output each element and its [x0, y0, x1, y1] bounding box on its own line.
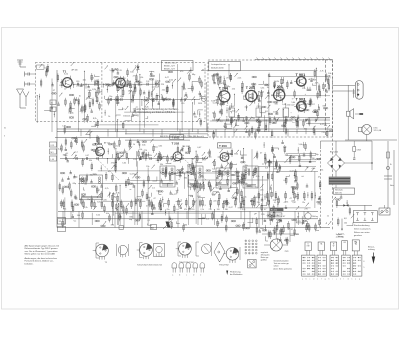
pinout T1 group	[93, 243, 129, 264]
cluster UKW under T2	[104, 94, 155, 130]
svg-text:1k: 1k	[217, 192, 219, 194]
svg-text:3,3k: 3,3k	[158, 145, 162, 147]
direction arrow note	[226, 270, 242, 276]
svg-text:Werte gelten nur bei reinem AM: Werte gelten nur bei reinem AM.	[25, 253, 56, 256]
svg-text:leitung: leitung	[338, 235, 343, 238]
svg-text:33k: 33k	[99, 92, 102, 94]
svg-text:1k: 1k	[212, 112, 214, 114]
svg-text:22n: 22n	[302, 202, 305, 204]
svg-text:5,6k: 5,6k	[232, 111, 236, 113]
svg-text:2,2k: 2,2k	[200, 209, 203, 211]
svg-text:5,6k: 5,6k	[243, 197, 247, 199]
cluster AM input	[58, 131, 101, 167]
svg-text:D201: D201	[198, 103, 202, 105]
svg-text:56k: 56k	[63, 208, 66, 210]
svg-text:33k: 33k	[324, 125, 327, 127]
wire	[335, 185, 337, 188]
tuning gang link (dashed)	[96, 158, 206, 180]
svg-text:8,2k: 8,2k	[275, 81, 279, 83]
svg-text:T901,T902: T901,T902	[219, 265, 230, 267]
diode D1	[137, 64, 140, 70]
svg-text:Reken von unten: Reken von unten	[354, 231, 371, 234]
diode demod circle	[198, 96, 206, 105]
transistor case outlines	[172, 263, 205, 277]
bus component	[119, 225, 157, 230]
svg-text:AF 116: AF 116	[183, 145, 189, 148]
label box A236	[270, 213, 282, 217]
svg-text:18p: 18p	[109, 96, 112, 98]
svg-text:33k: 33k	[274, 168, 277, 170]
pinout T901 group	[214, 242, 240, 267]
bandfilter can 1	[80, 175, 103, 200]
svg-text:AC 117: AC 117	[309, 103, 315, 106]
svg-text:a: a	[172, 274, 173, 276]
svg-text:6: 6	[364, 261, 365, 263]
transistor T901	[294, 73, 315, 88]
svg-text:330: 330	[64, 155, 67, 157]
wire bus +9V	[57, 128, 333, 130]
svg-text:220: 220	[191, 209, 194, 211]
connector strip note	[354, 224, 372, 237]
svg-text:1n: 1n	[255, 187, 257, 189]
svg-text:86300 - 627: 86300 - 627	[164, 66, 176, 68]
wire	[347, 85, 349, 140]
svg-text:T 2011: T 2011	[172, 136, 180, 140]
dashed box right edge	[324, 60, 326, 137]
svg-text:3,3k: 3,3k	[120, 96, 123, 98]
antenna mast 1	[17, 89, 24, 108]
pushbutton box TA	[318, 242, 324, 251]
cluster mains wiring	[326, 195, 355, 227]
svg-text:b: b	[306, 278, 307, 280]
mains lead chain	[380, 141, 394, 214]
component chain AM	[60, 155, 208, 166]
margin mark	[4, 128, 6, 138]
svg-text:33k: 33k	[160, 164, 163, 166]
bridge rectifier GL901	[328, 152, 345, 172]
svg-text:1n: 1n	[292, 122, 294, 124]
svg-text:343 075: 343 075	[335, 192, 342, 194]
svg-text:8,2k: 8,2k	[93, 174, 97, 176]
svg-text:lässig: lässig	[133, 115, 140, 117]
svg-text:86320 - 627: 86320 - 627	[164, 69, 176, 71]
svg-text:15k: 15k	[344, 223, 347, 225]
svg-text:C908: C908	[357, 150, 361, 152]
svg-text:33k: 33k	[194, 117, 197, 119]
svg-text:8,2k: 8,2k	[313, 79, 317, 81]
svg-text:15k: 15k	[320, 169, 323, 171]
pushbutton box Klang	[352, 240, 359, 251]
svg-text:3,3k: 3,3k	[140, 77, 144, 79]
output transformer Tr2	[333, 81, 363, 100]
svg-text:Netzan-: Netzan-	[368, 245, 375, 248]
cluster tone area	[259, 227, 299, 246]
pushbutton box MW	[330, 242, 336, 251]
svg-text:10k: 10k	[198, 177, 201, 179]
svg-text:33k: 33k	[149, 155, 152, 157]
long dashed screen line	[332, 60, 334, 231]
cluster IF2 AM stage	[211, 148, 257, 201]
svg-text:8,2k: 8,2k	[92, 89, 96, 91]
svg-text:31: 31	[51, 103, 53, 105]
transistor T201	[93, 142, 110, 158]
Netz arrow note	[368, 245, 375, 264]
svg-text:Röhrenvoltmeter Typ 261/2 ge: Röhrenvoltmeter Typ 261/2 gemes-	[25, 247, 59, 250]
svg-text:7978: 7978	[285, 251, 289, 253]
legend text paragraph 1	[25, 244, 60, 255]
cluster UKW corner	[193, 110, 203, 127]
svg-text:33k: 33k	[184, 178, 187, 180]
coil box input	[37, 65, 49, 70]
svg-text:A236 5W: A236 5W	[271, 214, 279, 217]
cluster IF stage 1	[211, 73, 245, 140]
svg-text:10k log: 10k log	[312, 216, 318, 218]
cluster bottom row right	[148, 209, 241, 232]
switch contact table	[302, 255, 365, 276]
component chain UKW low	[105, 96, 200, 106]
svg-text:22n: 22n	[183, 89, 186, 91]
svg-text:33k: 33k	[285, 117, 288, 119]
svg-text:22n: 22n	[213, 201, 216, 203]
shield partition (dashed)	[101, 63, 103, 122]
speaker connector strip	[338, 204, 377, 222]
svg-text:33k: 33k	[275, 103, 278, 105]
svg-text:5: 5	[364, 267, 365, 269]
wire rail y140	[125, 139, 190, 141]
left edge boxes	[50, 100, 57, 161]
wire supply loop	[321, 141, 373, 170]
wire mesh top band	[37, 64, 330, 132]
svg-text:hinten Lautsprech.: hinten Lautsprech.	[354, 228, 372, 231]
resistor row mid-left	[63, 200, 153, 210]
label box F202	[170, 135, 184, 140]
svg-text:47: 47	[284, 202, 286, 204]
svg-text:U 31: U 31	[51, 145, 55, 147]
cluster bottom right of bus	[242, 217, 319, 235]
antenna jack 1	[25, 72, 36, 77]
svg-text:8,2k: 8,2k	[234, 153, 238, 155]
legend text paragraph 2	[25, 257, 58, 266]
svg-text:4,7k: 4,7k	[105, 188, 109, 190]
wire bus ground	[57, 227, 330, 229]
svg-text:3: 3	[4, 136, 5, 138]
dial lamp	[359, 125, 382, 135]
wire left rail	[56, 70, 58, 228]
svg-text:4,7k: 4,7k	[135, 65, 139, 67]
svg-text:T 901: T 901	[296, 73, 306, 77]
svg-text:= Kurzer Bedarf zur Entstörung: = Kurzer Bedarf zur Entstörung der Oszil…	[133, 108, 179, 111]
svg-text:Tast von unten ge-: Tast von unten ge-	[274, 262, 290, 265]
svg-text:4,7k: 4,7k	[260, 194, 264, 196]
svg-text:ung Voreinstellung am Stück a: ung Voreinstellung am Stück an 0,5/0,8 z…	[133, 111, 176, 114]
cluster IF stage 3	[271, 77, 301, 138]
resistor row under detector	[158, 198, 253, 211]
transistor T2	[113, 69, 132, 90]
IF amplifier shield box (dashed)	[208, 60, 333, 137]
wire mesh mid band	[65, 148, 316, 225]
volume pot	[305, 211, 318, 219]
svg-text:8,2k: 8,2k	[93, 118, 97, 120]
dashed screen line 2	[320, 150, 322, 230]
svg-text:1n: 1n	[122, 109, 124, 111]
svg-text:470: 470	[94, 81, 97, 83]
power cord	[379, 150, 394, 215]
svg-text:4,7k: 4,7k	[81, 85, 85, 87]
svg-text:1k: 1k	[133, 144, 135, 146]
svg-text:M 9: M 9	[51, 152, 54, 154]
svg-text:3,3k: 3,3k	[141, 153, 145, 155]
wire	[335, 172, 337, 177]
svg-text:56k: 56k	[70, 112, 73, 114]
AM IF can 1	[160, 166, 175, 187]
svg-text:Änderungen, die dem technische: Änderungen, die dem technischen	[25, 257, 58, 260]
svg-text:T2: T2	[129, 85, 133, 89]
svg-text:5,6k: 5,6k	[88, 90, 92, 92]
svg-text:12V 0,1A: 12V 0,1A	[374, 129, 382, 132]
svg-text:4,7k: 4,7k	[315, 83, 319, 85]
svg-text:3,3k: 3,3k	[317, 158, 321, 160]
svg-text:22n: 22n	[96, 155, 99, 157]
label box Netztrafo	[334, 188, 355, 194]
svg-text:10k: 10k	[328, 73, 331, 75]
svg-text:8,2k: 8,2k	[127, 116, 131, 118]
svg-text:3,3k: 3,3k	[115, 69, 119, 71]
svg-text:15k: 15k	[173, 161, 176, 163]
IF coupling parts	[229, 103, 235, 127]
component chain IF	[212, 117, 330, 128]
svg-text:T 202: T 202	[172, 142, 180, 146]
svg-text:8,2k: 8,2k	[64, 74, 68, 76]
svg-text:64: 64	[51, 110, 53, 112]
transistor T203	[218, 143, 232, 148]
antenna mast 2	[23, 92, 29, 107]
svg-text:1k: 1k	[267, 87, 269, 89]
svg-text:5,6k: 5,6k	[282, 104, 286, 106]
cluster UKW input stage	[39, 62, 74, 117]
component chain UKW	[73, 81, 160, 89]
wire	[20, 107, 26, 109]
svg-text:1k: 1k	[273, 123, 275, 125]
cluster UKW T2 top chain	[105, 65, 144, 98]
AM IF can 3	[216, 168, 231, 188]
transistor T205	[243, 86, 264, 104]
DIN socket pictogram	[248, 259, 256, 268]
svg-text:Fortschritt dienen, bleiben vo: Fortschritt dienen, bleiben vor-	[25, 260, 54, 263]
svg-text:4,7k: 4,7k	[320, 70, 324, 72]
svg-text:10k: 10k	[139, 149, 142, 151]
svg-text:31: 31	[4, 128, 6, 130]
svg-text:AF 117: AF 117	[104, 142, 110, 145]
wire to tone pot	[262, 228, 299, 253]
svg-text:0,1: 0,1	[274, 202, 277, 204]
svg-text:1k: 1k	[75, 155, 77, 157]
svg-text:2,2k: 2,2k	[181, 155, 184, 157]
svg-text:T201,T202,T203,T211,T212: T201,T202,T203,T211,T212	[137, 265, 163, 267]
pushbutton box LW	[342, 241, 348, 251]
bus arrow	[163, 221, 171, 229]
tone pot	[264, 239, 289, 251]
label box Lautsprecher	[209, 61, 241, 71]
cluster under IF box	[159, 193, 258, 213]
svg-text:Pfeilrichtung: Pfeilrichtung	[230, 270, 240, 273]
svg-text:(leere Seite gedruckt): (leere Seite gedruckt)	[274, 267, 292, 270]
svg-text:g: g	[325, 278, 326, 280]
svg-text:3,3k: 3,3k	[242, 209, 245, 211]
wire bus AVC	[57, 131, 333, 133]
svg-text:5,6k: 5,6k	[142, 144, 146, 146]
label box UKW-Tuner	[162, 61, 194, 71]
svg-text:0,47: 0,47	[85, 155, 89, 157]
svg-text:3406-67-5230: 3406-67-5230	[211, 67, 224, 69]
wire long AF	[212, 171, 318, 173]
wire rail y134	[125, 133, 208, 135]
bottom left boxes	[58, 218, 66, 232]
shield line with ticks	[255, 58, 333, 60]
svg-text:T 203: T 203	[219, 144, 227, 148]
svg-text:4,7k: 4,7k	[170, 219, 174, 221]
svg-text:2,2k: 2,2k	[146, 81, 149, 83]
cluster driver stage	[302, 87, 333, 138]
transistor T206	[271, 85, 285, 103]
svg-text:8,2k: 8,2k	[145, 107, 149, 109]
svg-text:T 902: T 902	[296, 97, 306, 101]
svg-text:5,6k: 5,6k	[299, 144, 303, 146]
cluster UKW output filter	[143, 67, 205, 108]
svg-text:5,6k: 5,6k	[96, 215, 100, 217]
svg-text:5,6k: 5,6k	[62, 126, 66, 128]
svg-text:22n: 22n	[260, 190, 263, 192]
wire bus IF bottom	[55, 137, 208, 139]
cluster AF driver	[296, 142, 323, 232]
svg-text:Bei UKW: alle ZF-Kreise auf 10: Bei UKW: alle ZF-Kreise auf 10,7 MHz (AM…	[160, 135, 204, 138]
cluster detector AF	[255, 140, 302, 234]
svg-text:sehen: sehen	[274, 266, 279, 268]
svg-text:Schalterkontakten: Schalterkontakten	[274, 259, 289, 262]
svg-text:Ri 22k: Ri 22k	[271, 210, 278, 212]
UKW tuner shield box (dashed)	[35, 63, 205, 122]
annotation tuner note	[133, 108, 179, 117]
loudspeaker	[347, 109, 364, 119]
svg-text:d: d	[193, 274, 194, 276]
svg-text:2,2k: 2,2k	[76, 85, 80, 87]
svg-text:22n: 22n	[202, 218, 205, 220]
Systemleitung note	[338, 219, 345, 239]
svg-text:2,2k: 2,2k	[238, 78, 242, 80]
svg-text:10k: 10k	[156, 191, 159, 193]
ratio detector can	[243, 166, 258, 188]
svg-text:5,6k: 5,6k	[122, 162, 126, 164]
svg-text:2,2k: 2,2k	[283, 146, 287, 148]
supply loop parts	[336, 141, 373, 164]
svg-text:22n: 22n	[167, 209, 170, 211]
svg-text:System-: System-	[338, 233, 345, 236]
IF coupling parts 2	[256, 103, 262, 127]
svg-text:Lautsprecher an: Lautsprecher an	[211, 63, 225, 66]
svg-text:AF 106: AF 106	[72, 69, 78, 72]
svg-text:470: 470	[184, 209, 187, 211]
svg-text:120: 120	[217, 209, 220, 211]
svg-text:b: b	[179, 274, 180, 276]
svg-text:L 04: L 04	[51, 159, 54, 161]
svg-text:geöffnet: geöffnet	[261, 258, 268, 261]
svg-text:1k: 1k	[79, 95, 81, 97]
transistor T1	[60, 69, 78, 90]
Systemzeichnung note	[336, 233, 344, 238]
IF detector parts	[283, 103, 289, 127]
pushbutton box UKW	[305, 242, 311, 251]
svg-text:330: 330	[76, 81, 79, 83]
transistor T902	[294, 97, 315, 113]
cluster output bias	[310, 69, 331, 92]
svg-text:sen. Die in Klammern ( ) gese: sen. Die in Klammern ( ) gesetzten	[25, 250, 59, 253]
svg-text:Netz: Netz	[390, 184, 394, 187]
svg-text:richtung: richtung	[368, 248, 375, 251]
svg-text:15k: 15k	[302, 88, 305, 90]
cluster UKW T1 stage	[69, 73, 103, 113]
svg-text:8,2k: 8,2k	[256, 176, 260, 178]
svg-text:3,3k: 3,3k	[116, 193, 120, 195]
svg-text:e: e	[200, 274, 201, 276]
svg-text:T 205: T 205	[246, 86, 255, 90]
svg-text:15k: 15k	[146, 166, 149, 168]
AM IF can 2	[188, 166, 203, 187]
svg-text:8,2k: 8,2k	[169, 80, 173, 82]
svg-text:22n: 22n	[257, 202, 260, 204]
cluster bottom row left	[62, 211, 151, 228]
svg-text:33k: 33k	[267, 201, 270, 203]
cluster IF stage 2	[238, 73, 273, 140]
svg-text:Netztrafo: Netztrafo	[335, 189, 343, 192]
svg-text:h: h	[329, 278, 330, 280]
cluster AM mixer	[108, 138, 157, 172]
svg-text:1k: 1k	[108, 116, 110, 118]
svg-text:56k: 56k	[208, 157, 211, 159]
svg-text:4,7k: 4,7k	[312, 168, 316, 170]
cluster IF1 AM stage	[155, 145, 212, 197]
inverse label Ri	[270, 208, 284, 212]
wire	[366, 135, 368, 142]
svg-text:15k: 15k	[245, 117, 248, 119]
svg-text:1n: 1n	[242, 206, 244, 208]
svg-text:Steckverbindung: Steckverbindung	[354, 224, 370, 227]
svg-text:22n: 22n	[87, 199, 90, 201]
svg-text:UKW - Tuner: UKW - Tuner	[165, 63, 177, 65]
svg-text:10k: 10k	[106, 213, 109, 215]
svg-text:Alle Spannungen gegen Chassis: Alle Spannungen gegen Chassis mit	[25, 244, 60, 247]
wire junction drops	[63, 129, 315, 228]
cluster under tuner box	[62, 114, 98, 134]
wire bus mid2	[58, 218, 318, 220]
svg-text:1n: 1n	[251, 117, 253, 119]
pinout T201 group	[137, 243, 165, 267]
transistor T202	[171, 142, 189, 163]
svg-text:1n: 1n	[327, 216, 329, 218]
svg-text:22n: 22n	[162, 90, 165, 92]
resistor row AF	[257, 191, 313, 204]
socket pin grid	[245, 240, 257, 254]
svg-text:der Elektroden: der Elektroden	[230, 273, 242, 276]
svg-text:B30 C350: B30 C350	[330, 152, 338, 154]
svg-text:1k: 1k	[137, 81, 139, 83]
svg-text:gesehen: gesehen	[354, 235, 363, 237]
contact table column labels	[302, 278, 360, 280]
svg-text:0,47: 0,47	[293, 202, 297, 204]
svg-text:8,2k: 8,2k	[84, 207, 88, 209]
svg-text:T1: T1	[63, 69, 67, 73]
pinout T204 group	[176, 242, 212, 264]
cluster coils left	[59, 162, 112, 213]
external aerial symbol	[17, 60, 26, 67]
